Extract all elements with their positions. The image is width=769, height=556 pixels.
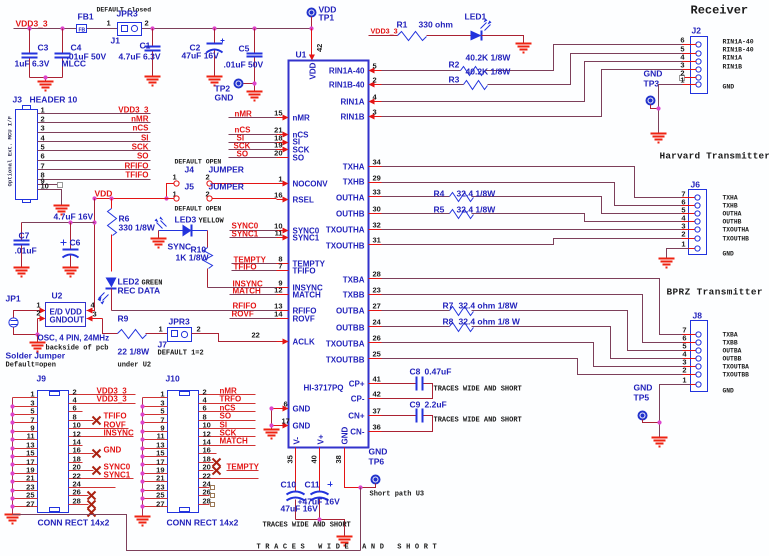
svg-text:OUTHA: OUTHA (723, 211, 742, 218)
svg-text:40.2K 1/8W: 40.2K 1/8W (466, 53, 512, 63)
svg-text:15: 15 (274, 109, 282, 118)
wire TXOUTHB to J6 (382, 239, 682, 245)
svg-text:1: 1 (30, 390, 34, 399)
node junction C6 top (68, 220, 72, 224)
net label SYNC0 (230, 222, 277, 231)
J6 pin 5 (681, 206, 741, 218)
svg-text:J6: J6 (691, 180, 701, 190)
svg-text:1: 1 (107, 19, 111, 28)
svg-text:GND: GND (369, 447, 388, 457)
svg-text:1: 1 (173, 173, 177, 182)
svg-text:TXOUTBB: TXOUTBB (326, 356, 365, 365)
svg-text:6: 6 (203, 404, 207, 413)
J9 pin 23 (13, 483, 38, 492)
svg-text:TP3: TP3 (644, 79, 660, 89)
wire TXOUTBA to J8 (382, 343, 683, 367)
U1 pin 24 OUTBB (right) (336, 318, 382, 333)
U2 pin 1 E/D (36, 301, 45, 314)
wire TXBA to J8 (382, 279, 683, 335)
J9 pin 18 (69, 455, 83, 464)
ground C10/C11 (337, 537, 353, 546)
svg-text:C10: C10 (281, 480, 297, 490)
svg-text:OUTBB: OUTBB (723, 356, 742, 363)
J10 pin 7 (143, 416, 168, 425)
U1 pin 15 nMR (left) (274, 109, 310, 123)
node junction J9 bus 13 (10, 446, 14, 450)
svg-text:7: 7 (278, 262, 282, 271)
svg-text:MATCH: MATCH (293, 291, 322, 300)
node junction U2 gnd (35, 332, 39, 336)
wire JPR3 J7 to ACLK (192, 331, 277, 342)
svg-text:5: 5 (373, 62, 377, 71)
svg-text:OUTHB: OUTHB (336, 210, 365, 219)
J6 pin 4 (681, 214, 741, 226)
J6 pin 3 (681, 222, 749, 234)
capacitor C8 (382, 367, 452, 399)
svg-text:TXHA: TXHA (343, 163, 365, 172)
J9 pin 26 (69, 488, 96, 500)
J10 pin 17 (143, 458, 168, 467)
node junction J10 bus 17 (140, 462, 144, 466)
J9 pin 8 (69, 412, 127, 425)
net label VDD (95, 189, 113, 199)
J10 pin 8 (199, 412, 256, 422)
J9 pin 6 (69, 404, 83, 413)
node junction VDD/C6C7 branch (92, 196, 96, 200)
svg-text:R7: R7 (443, 301, 454, 311)
svg-text:RSEL: RSEL (293, 196, 314, 205)
J3 pin 9 no-connect (38, 177, 63, 188)
node junction C2 (212, 26, 216, 30)
svg-text:17: 17 (282, 417, 290, 426)
svg-text:Optional Ext. MCU I/F: Optional Ext. MCU I/F (7, 115, 14, 186)
J9 pin 25 (13, 491, 38, 500)
J3 pin 3 net nCS (38, 124, 151, 133)
U1 pin 10 SYNC0 (left) (274, 222, 320, 236)
svg-text:JP1: JP1 (6, 294, 21, 304)
svg-text:LED3: LED3 (175, 215, 197, 225)
svg-text:OUTHA: OUTHA (336, 194, 365, 203)
svg-text:GND: GND (723, 84, 735, 91)
J10 pin 1 (143, 390, 168, 399)
net label SCK (229, 142, 277, 151)
J10 pin 14 (199, 437, 256, 447)
U1 bottom pin 35 (286, 448, 296, 464)
annotation DEFAULT OPEN (LED3) (175, 206, 222, 213)
svg-text:11: 11 (157, 432, 165, 441)
svg-text:2: 2 (206, 173, 210, 182)
J10 pin 28 (199, 497, 215, 507)
svg-text:TP5: TP5 (634, 393, 650, 403)
svg-text:SYNC: SYNC (168, 242, 192, 252)
svg-text:2: 2 (682, 366, 686, 375)
svg-text:35: 35 (286, 455, 295, 463)
node junction C6C7 rail (92, 220, 96, 224)
wire J6 pin1 to ground (667, 249, 689, 259)
wire J5 pin2 to RSEL (213, 198, 277, 200)
svg-text:RIN1A: RIN1A (340, 98, 364, 107)
capacitor C7 (14, 223, 37, 268)
svg-text:22 1/8W: 22 1/8W (118, 347, 151, 357)
J9 pin 2 (69, 387, 136, 397)
svg-text:TXOUTHB: TXOUTHB (326, 242, 365, 251)
svg-text:1: 1 (160, 390, 164, 399)
svg-text:330 ohm: 330 ohm (419, 20, 454, 30)
svg-text:RIN1A-40: RIN1A-40 (329, 67, 365, 76)
svg-text:TXHB: TXHB (343, 178, 365, 187)
svg-text:TXBA: TXBA (343, 276, 365, 285)
annotation DEFAULT OPEN (J4/J5) (175, 159, 222, 166)
node junction J10 bus 11 (140, 437, 144, 441)
wire TXOUTHA to J6 (382, 229, 682, 231)
J9 pin 22 (69, 471, 134, 481)
svg-text:1: 1 (681, 240, 685, 249)
svg-text:J5: J5 (185, 182, 195, 192)
wire C3/C4 ground join (30, 78, 63, 82)
ground LED3 anode (151, 231, 167, 248)
svg-text:6: 6 (284, 400, 288, 409)
svg-text:42: 42 (315, 44, 324, 52)
solder jumper JP1 (6, 294, 66, 370)
svg-text:GND: GND (293, 405, 311, 414)
J10 pin 26 (199, 488, 215, 498)
svg-text:J9: J9 (37, 374, 47, 384)
svg-text:6: 6 (680, 36, 684, 45)
node junction J9 bus 27 (10, 504, 14, 508)
svg-text:OUTBB: OUTBB (336, 324, 365, 333)
svg-text:under U2: under U2 (118, 362, 152, 370)
svg-text:2: 2 (373, 76, 377, 85)
svg-text:15: 15 (156, 449, 164, 458)
svg-text:32.4 1/8W: 32.4 1/8W (457, 189, 497, 199)
wire OUTHB to J6 (382, 214, 682, 222)
svg-text:40: 40 (310, 455, 319, 463)
wire R3 to J2 pin 5 (488, 54, 683, 85)
svg-text:C7: C7 (19, 231, 30, 241)
svg-text:10: 10 (203, 421, 211, 430)
net label VDD3_3 (LED1) (371, 27, 398, 36)
connector J3 HEADER 10 (7, 95, 78, 203)
svg-text:28: 28 (373, 270, 381, 279)
net label ROVF (230, 310, 277, 319)
J10 pin 23 (143, 483, 168, 492)
svg-text:VDD3_3: VDD3_3 (97, 395, 128, 404)
svg-text:J10: J10 (166, 374, 180, 384)
node junction TP2/C5 (252, 81, 256, 85)
svg-text:RIN1B-40: RIN1B-40 (723, 47, 754, 54)
node junction GND pin 6 (269, 406, 273, 410)
connector J9 CONN RECT 14x2 (37, 374, 110, 528)
wire VDD branch to J4 pin1 (167, 184, 174, 199)
testpoint TP1 (308, 5, 337, 29)
wire U1 GND pins to ground (271, 409, 273, 430)
U1 pin 32 TXOUTHA (right) (326, 221, 382, 235)
svg-text:21: 21 (26, 474, 34, 483)
svg-text:.01uF 50V: .01uF 50V (224, 60, 264, 70)
wire C10/C11 bottom rail (296, 520, 345, 537)
ferrite bead FB1 (77, 12, 94, 34)
svg-text:YELLOW: YELLOW (199, 218, 225, 226)
U2 pin 4 VDD (87, 301, 96, 314)
svg-text:28: 28 (203, 497, 211, 506)
resistor R7 32.4 ohm (443, 301, 519, 316)
U1 pin 6 GND (left) (272, 400, 311, 414)
svg-text:29: 29 (373, 174, 381, 183)
svg-text:15: 15 (26, 449, 34, 458)
node junction J9 bus 25 (10, 496, 14, 500)
J3 pin 2 net nMR (38, 115, 151, 124)
J10 pin 10 (199, 421, 256, 430)
J10 pin 13 (143, 441, 168, 450)
wire TP6 junction to bottom rail (360, 488, 362, 551)
U1 pin 21 nCS (left) (274, 126, 309, 140)
wire TXBB to J8 (382, 295, 683, 343)
svg-text:RIN1A: RIN1A (723, 55, 743, 62)
U1 pin 16 RSEL (left) (274, 191, 314, 205)
svg-text:R5: R5 (434, 205, 445, 215)
node junction J10 bus 9 (140, 429, 144, 433)
svg-text:CN-: CN- (350, 428, 365, 437)
J10 pin 5 (143, 407, 168, 416)
svg-text:33: 33 (373, 188, 381, 197)
ground C1 (145, 77, 161, 86)
svg-text:J1: J1 (111, 36, 121, 46)
U1 pin 5 RIN1A-40 (right) (329, 62, 382, 76)
svg-text:TXBB: TXBB (343, 291, 365, 300)
J10 pin 9 (143, 424, 168, 433)
ground C5 (247, 92, 263, 101)
J9 pin 12 (69, 429, 134, 439)
J10 pin 6 (199, 404, 256, 413)
svg-text:Short path U3: Short path U3 (370, 491, 425, 499)
J8 pin 5 (682, 342, 741, 355)
J9 pin 21 (13, 474, 38, 483)
J10 pin 15 (143, 449, 168, 458)
J3 pin 5 net SCK (38, 143, 151, 152)
J10 pin 22 (199, 472, 259, 481)
J2 pin 2 (680, 69, 702, 81)
node junction J10 bus 7 (140, 420, 144, 424)
annotation OSC 4 PIN 24MHz (38, 334, 110, 353)
U1 pin 8 TEMPTY (left) (277, 255, 326, 269)
ground C2 (207, 77, 223, 86)
svg-text:R3: R3 (449, 75, 460, 85)
svg-text:R4: R4 (434, 189, 445, 199)
J3 pin 10 to ground (38, 182, 62, 206)
J8 pin 4 (682, 350, 741, 363)
svg-text:27: 27 (26, 500, 34, 509)
J8 pin 3 (682, 358, 749, 371)
J10 pin 24 (199, 480, 215, 490)
svg-text:R8: R8 (443, 317, 454, 327)
svg-text:25: 25 (26, 491, 34, 500)
svg-text:RIN1A-40: RIN1A-40 (723, 39, 754, 46)
U1 pin 25 TXOUTBB (right) (326, 350, 382, 365)
svg-text:SYNC1: SYNC1 (293, 234, 320, 243)
svg-text:SI: SI (141, 134, 149, 143)
svg-text:TRACES WIDE AND SHORT: TRACES WIDE AND SHORT (434, 417, 522, 425)
wire OUTHA to J6 (382, 197, 682, 214)
node junction VDD/J4 branch (164, 196, 168, 200)
ground TP3 (651, 134, 667, 143)
U1 pin 34 TXHA (right) (343, 158, 382, 172)
J10 pin 11 (143, 432, 168, 441)
svg-text:FB1: FB1 (78, 12, 94, 22)
annotation 4.7uF 16V (54, 212, 94, 222)
J10 pin 2 (199, 387, 256, 397)
svg-text:DEFAULT OPEN: DEFAULT OPEN (175, 206, 222, 213)
svg-text:3: 3 (41, 124, 45, 133)
svg-text:TRFO: TRFO (220, 395, 242, 404)
wire GND lead to TP6 junction (345, 448, 361, 488)
testpoint TP6 GND (361, 447, 388, 488)
node junction TP5 (657, 420, 661, 424)
svg-text:TXBA: TXBA (723, 332, 738, 339)
connector J8 (691, 311, 708, 392)
svg-text:37: 37 (373, 407, 381, 416)
J3 pin 8 net TFIFO (38, 171, 151, 180)
J9 pin 16 (69, 446, 122, 458)
wire VDD rail (95, 198, 174, 200)
svg-text:VDD: VDD (309, 62, 318, 79)
svg-text:HI-3717PQ: HI-3717PQ (304, 384, 344, 393)
svg-text:330 1/8W: 330 1/8W (119, 223, 156, 233)
J9 pin 15 (13, 449, 38, 458)
svg-text:10: 10 (41, 182, 49, 191)
J10 pin 16 (199, 446, 217, 455)
wire J4 pin2 to NOCONV (213, 183, 277, 185)
svg-text:JUMPER: JUMPER (209, 165, 244, 175)
svg-text:5: 5 (160, 407, 164, 416)
svg-text:TXOUTBA: TXOUTBA (326, 340, 365, 349)
svg-text:JPR3: JPR3 (169, 317, 191, 327)
net label TFIFO (232, 263, 277, 272)
J9 pin 13 (13, 441, 38, 450)
net label SYNC1 (230, 230, 277, 239)
svg-text:R1: R1 (397, 20, 408, 30)
annotation TRACES WIDE AND SHORT (C8) (434, 386, 522, 394)
svg-text:C9: C9 (410, 400, 421, 410)
svg-text:LED1: LED1 (465, 12, 487, 22)
svg-text:C6: C6 (70, 238, 81, 248)
svg-text:22: 22 (252, 331, 260, 340)
U1 pin 41 CP+ (right) (349, 375, 382, 389)
svg-text:25: 25 (373, 350, 381, 359)
U1 pin 12 MATCH (left) (274, 286, 321, 300)
svg-text:C3: C3 (38, 43, 49, 53)
svg-text:OUTHB: OUTHB (723, 219, 742, 226)
svg-text:GND: GND (341, 427, 350, 445)
wire J9 left ground bus (12, 398, 14, 515)
svg-text:.01uF: .01uF (15, 246, 37, 256)
testpoint TP2 (215, 80, 255, 103)
wire TXOUTBB to J8 (382, 359, 683, 375)
J9 pin 3 (13, 399, 38, 408)
J9 pin 10 (69, 421, 129, 430)
svg-text:26: 26 (373, 334, 381, 343)
svg-text:20: 20 (73, 463, 81, 472)
ground C7 (14, 268, 30, 277)
svg-text:RIN1B: RIN1B (723, 64, 743, 71)
J9 pin 14 (69, 438, 83, 447)
title Harvard Transmitter (660, 151, 769, 162)
svg-text:CN+: CN+ (348, 412, 365, 421)
wire J8 pin1 to ground (660, 385, 691, 438)
svg-text:backside of pcb: backside of pcb (46, 345, 109, 353)
svg-text:0.47uF: 0.47uF (425, 367, 452, 377)
svg-text:HEADER 10: HEADER 10 (30, 95, 78, 105)
net label RFIFO / wire from LED2 (112, 302, 277, 311)
svg-text:20: 20 (203, 463, 211, 472)
connector J2 (691, 26, 708, 94)
resistor R3 40.2K (382, 67, 512, 90)
J10 pin 21 (143, 474, 168, 483)
svg-text:SO: SO (137, 152, 149, 161)
capacitor C2 electrolytic (182, 29, 225, 77)
J9 pin 17 (13, 458, 38, 467)
wire V- lead to C10 (295, 448, 297, 491)
J10 pin 19 (143, 466, 168, 475)
J3 pin 7 net RFIFO (38, 162, 151, 171)
capacitor C4 (55, 29, 107, 78)
ground J10 (135, 517, 151, 526)
svg-text:32: 32 (373, 221, 381, 230)
svg-text:BPRZ Transmitter: BPRZ Transmitter (667, 287, 763, 298)
U1 pin 7 TFIFO (left) (277, 262, 316, 276)
U1 pin 37 CN+ (right) (348, 407, 381, 421)
J9 pin 11 (13, 432, 38, 441)
svg-text:SO: SO (220, 412, 232, 421)
svg-text:TXOUTBB: TXOUTBB (723, 372, 750, 379)
J3 pin 1 net VDD3_3 (38, 106, 151, 115)
wire C6/C7 top rail (22, 222, 95, 224)
svg-text:FB: FB (79, 28, 86, 34)
wire V+ lead to C11 (319, 448, 321, 491)
svg-text:TFIFO: TFIFO (125, 171, 148, 180)
connector J10 CONN RECT 14x2 (166, 374, 239, 528)
net label nMR (229, 110, 277, 119)
svg-text:DEFAULT 1=2: DEFAULT 1=2 (158, 350, 204, 358)
no-connect X below J9 pin 28 (88, 509, 96, 517)
U1 pin 18 SI (left) (274, 134, 300, 147)
svg-text:RIN1B: RIN1B (340, 113, 364, 122)
svg-text:30: 30 (373, 205, 381, 214)
node junction J10 bus 5 (140, 412, 144, 416)
J8 pin 2 (682, 366, 749, 379)
node junction C3 (27, 26, 31, 30)
U1 pin 9 INSYNC (left) (277, 279, 323, 293)
wire TXHB to J6 (382, 183, 682, 206)
svg-text:4: 4 (373, 93, 378, 102)
svg-text:TFIFO: TFIFO (293, 267, 316, 276)
U1 pin 13 RFIFO (left) (274, 302, 316, 316)
J9 pin 19 (13, 466, 38, 475)
U1 bottom pin 40 (310, 448, 320, 464)
capacitor C11 (298, 480, 341, 520)
wire VDD to U1 pin 42 (309, 29, 324, 61)
J9 pin 28 (69, 497, 96, 509)
ground LED1 (516, 44, 532, 53)
svg-text:26: 26 (73, 488, 81, 497)
svg-text:47uF 16V: 47uF 16V (182, 51, 220, 61)
wire J9 bus to bottom rail (13, 515, 361, 551)
J6 pin 2 (681, 230, 749, 243)
svg-text:28: 28 (73, 497, 81, 506)
svg-text:16: 16 (203, 446, 211, 455)
svg-text:24: 24 (373, 318, 382, 327)
jumper J4 (173, 165, 244, 187)
svg-text:GND: GND (634, 383, 653, 393)
